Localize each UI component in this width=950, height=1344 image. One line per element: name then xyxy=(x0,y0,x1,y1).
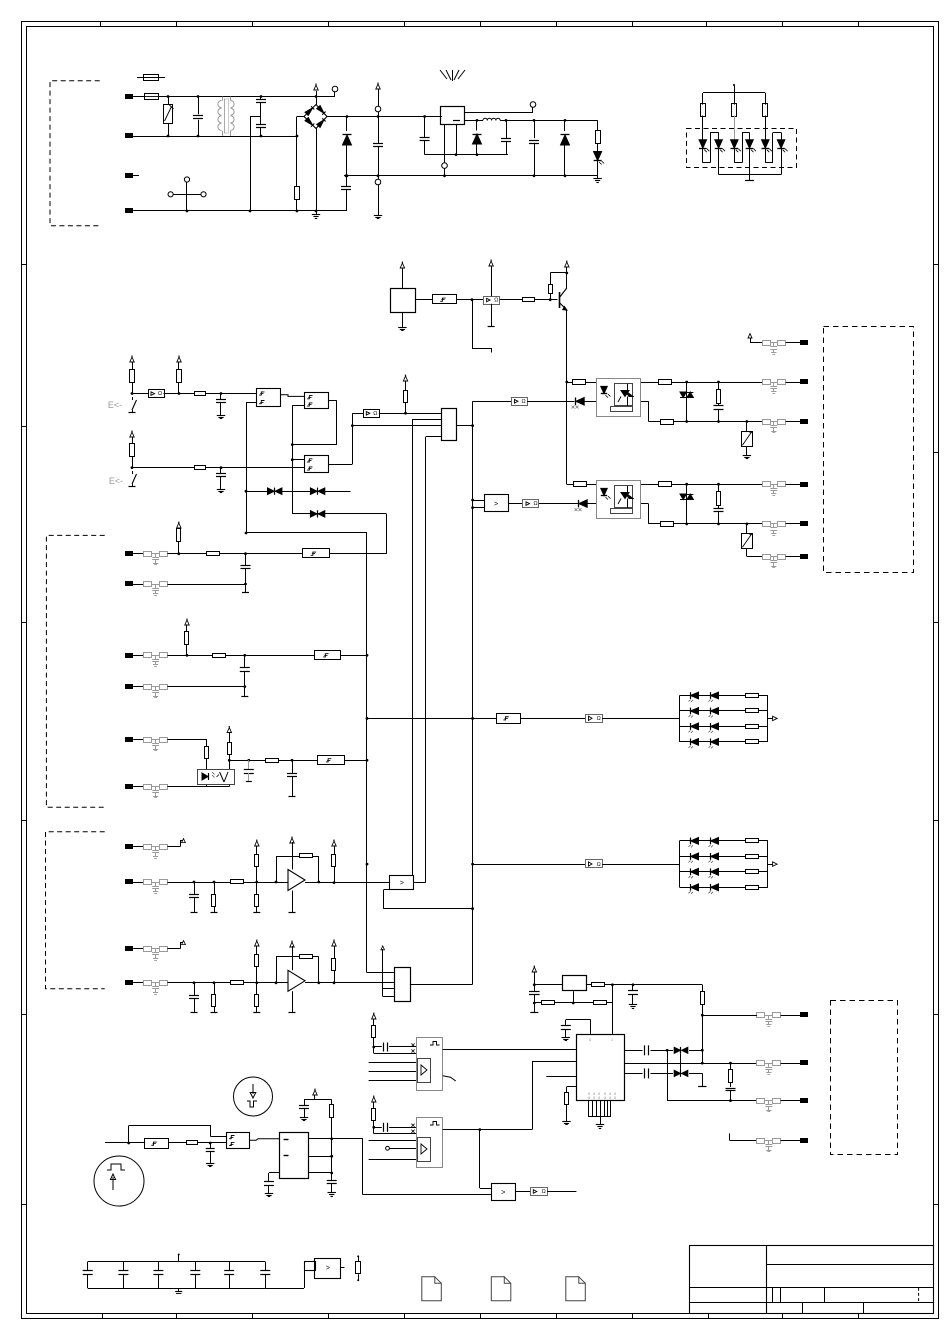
bead filter bottom row2 xyxy=(757,1061,765,1066)
bead filter row J xyxy=(144,981,152,986)
capacitor C46 xyxy=(730,1083,732,1088)
capacitor C53 xyxy=(210,1143,212,1149)
bead filter row B xyxy=(144,582,152,587)
bead filter row I xyxy=(144,947,152,952)
bead filter bottom row4 xyxy=(757,1139,765,1144)
rays decoration xyxy=(440,70,447,79)
schmitt filter UL1 xyxy=(497,714,521,724)
ground U2 xyxy=(402,312,404,324)
capacitor C41 xyxy=(632,985,634,991)
resistor RH5 feedback xyxy=(300,854,313,858)
wire bus top link xyxy=(246,532,367,534)
wire connector J3 pin4 xyxy=(383,996,395,998)
resistor R31 xyxy=(574,482,587,487)
wire timer1 hook xyxy=(443,1076,456,1081)
capacitor CJ xyxy=(194,983,196,995)
wire to gate1 xyxy=(206,393,256,395)
ground stub U4 xyxy=(491,304,493,327)
vcc arrow opamp2 pullup xyxy=(255,941,259,946)
svg-text:Ω: Ω xyxy=(534,501,538,507)
wire timer2 to comparator xyxy=(479,1130,481,1188)
wire gate3 out xyxy=(328,464,352,466)
terminal L2 xyxy=(126,134,133,138)
led D12 xyxy=(718,133,720,141)
terminal XB3 xyxy=(781,1100,801,1102)
crystal Y1 xyxy=(563,976,587,991)
wire U8 out xyxy=(527,401,574,403)
wire row2 to gate3 xyxy=(206,467,304,469)
resistor RJ6 pullup xyxy=(332,959,336,971)
wire row H to opamp xyxy=(244,882,289,884)
ground led xyxy=(597,176,599,179)
page icon 1 xyxy=(422,1277,442,1301)
wire led pair 3 links xyxy=(765,162,773,164)
terminal row H xyxy=(126,880,133,884)
resistor R52 xyxy=(372,1109,376,1121)
capacitor C52 series xyxy=(374,1127,382,1129)
triac TR2 xyxy=(686,484,688,524)
vcc arrow row E pullup xyxy=(227,728,231,733)
border zone tick marks right xyxy=(934,264,939,266)
capacitor C3 xyxy=(506,120,508,138)
terminal X21 xyxy=(786,342,801,344)
bridge rectifier BR1 xyxy=(297,116,304,118)
resistor R2 xyxy=(523,298,535,302)
ground mcu xyxy=(600,1117,602,1121)
wire row A xyxy=(167,553,206,555)
connector J2 xyxy=(442,409,457,441)
wire gate1 to gate2 xyxy=(280,395,304,397)
vertical pin4 from comparator xyxy=(425,437,427,883)
terminal PE stub xyxy=(126,174,133,178)
cap bank rails xyxy=(88,1261,266,1263)
resistor R5 xyxy=(177,370,182,383)
wire pulse line c xyxy=(197,1142,226,1144)
wire row F xyxy=(167,786,229,788)
resistor RH xyxy=(214,882,216,894)
terminal row C xyxy=(126,654,133,658)
inductor L1 xyxy=(464,120,483,122)
wire opto E out xyxy=(229,760,265,762)
svg-text:Ω: Ω xyxy=(494,298,498,304)
vcc arrow U4 xyxy=(489,261,493,266)
wire row A cont xyxy=(219,553,302,555)
optocoupler U21 xyxy=(597,379,641,417)
driver buffer U9B xyxy=(523,500,539,508)
gate U6C xyxy=(305,456,329,473)
wire U21B out xyxy=(547,1191,576,1193)
driver buffer U21B xyxy=(531,1188,548,1196)
vcc arrow reset xyxy=(304,1099,332,1101)
ground cap bank xyxy=(178,1288,180,1292)
wire row C cont xyxy=(226,655,315,657)
dashed box left connector 2 xyxy=(46,535,104,807)
wire led array 1 out xyxy=(768,718,773,720)
wire gate to reset ic xyxy=(249,1139,279,1141)
ground C53 xyxy=(210,1160,212,1163)
reset ic left bottom pin xyxy=(269,1172,280,1174)
wire row2 xyxy=(132,467,195,469)
capacitor CC xyxy=(244,655,246,667)
wire mcu left stub xyxy=(546,1076,576,1078)
vcc arrow bridge output xyxy=(316,91,318,97)
resistor RJ4 xyxy=(256,983,258,994)
timer block U16 xyxy=(417,1118,443,1168)
terminal row F xyxy=(126,785,133,789)
terminal row J xyxy=(126,981,133,985)
vcc arrow aux connector xyxy=(376,84,380,89)
resistor R33 xyxy=(661,522,674,527)
wire row E cont xyxy=(278,760,317,762)
bead filter bottom row1 xyxy=(757,1013,765,1018)
vcc arrow Q1 xyxy=(565,262,569,267)
resistor RE xyxy=(206,740,208,747)
led D16 xyxy=(781,133,783,141)
SMPS ground pins xyxy=(444,125,446,163)
diode pair row2 xyxy=(292,513,386,515)
switch S1 xyxy=(132,397,134,400)
ground mains xyxy=(316,211,318,214)
wire N rail xyxy=(133,210,346,212)
terminal X33 xyxy=(786,556,801,558)
terminal row D xyxy=(126,685,133,689)
border zone tick marks left xyxy=(22,264,27,266)
led array 1 xyxy=(679,696,681,742)
ground aux xyxy=(378,212,380,215)
dashed box output connector right xyxy=(824,327,914,573)
page icon 3 xyxy=(566,1277,586,1301)
transistor Q1 xyxy=(559,292,561,308)
resistor R3 pullup xyxy=(550,294,552,300)
resistor R22 xyxy=(659,380,672,385)
bead filter T23 xyxy=(763,420,771,425)
svg-text:Ω: Ω xyxy=(373,411,377,417)
timer block U15 xyxy=(417,1038,443,1091)
wire timer2 to mcu xyxy=(532,1062,534,1130)
vcc arrow timer2 xyxy=(372,1097,376,1102)
resistor RA xyxy=(177,529,181,542)
feedback loop opamp2 xyxy=(276,957,278,983)
resistor RE2 xyxy=(228,743,232,755)
wire varistor to row xyxy=(746,549,748,557)
capacitor C21 snubber xyxy=(718,403,720,406)
wire schmitt out xyxy=(457,299,484,301)
led D13 xyxy=(734,129,736,141)
schmitt filter UA xyxy=(303,549,330,558)
tvs diode D45 xyxy=(674,1070,680,1076)
resistor R1 led xyxy=(597,120,599,130)
resistor R7 xyxy=(130,444,135,457)
diode D21 xyxy=(576,398,584,406)
resistor R8 xyxy=(195,466,206,470)
optocoupler UE xyxy=(198,770,235,785)
long vertical bus K1 xyxy=(472,401,474,984)
wire comparator U12 lower xyxy=(383,890,385,909)
svg-text:8: 8 xyxy=(604,1096,606,1100)
connector J3 xyxy=(395,968,411,1002)
vcc stub led board xyxy=(733,84,735,86)
terminal XB1 xyxy=(781,1015,801,1017)
comparator U9 xyxy=(485,495,509,512)
wire opto1 out bottom xyxy=(641,401,648,403)
pulse icon down xyxy=(234,1077,273,1116)
dashed box mains input connector xyxy=(50,81,101,226)
terminal N xyxy=(126,209,133,213)
resistor RH3 xyxy=(255,855,259,867)
wire L2 to bridge AC2 xyxy=(296,117,298,187)
title block row line 2 xyxy=(690,1287,934,1289)
resistor RH4 xyxy=(256,882,258,894)
wire connector out xyxy=(456,425,472,427)
svg-text:>: > xyxy=(494,501,498,508)
resistor R43 xyxy=(542,1001,555,1005)
wire SMPS out top xyxy=(464,112,533,114)
wire timer2 out xyxy=(443,1129,532,1131)
resistor R34 snubber xyxy=(718,484,720,492)
wire row E out xyxy=(344,760,367,762)
feedback loop pulse xyxy=(128,1126,130,1143)
wire row G stub xyxy=(167,846,180,848)
bead filter row G xyxy=(144,845,152,850)
comparator U20 xyxy=(492,1184,516,1201)
capacitor CX1 xyxy=(198,97,200,115)
svg-text:>: > xyxy=(501,1189,505,1196)
wire Y-cap midpoint to N xyxy=(260,115,262,118)
wire led row 1c xyxy=(602,718,679,720)
resistor RJ5 feedback xyxy=(300,955,313,959)
svg-text:>: > xyxy=(400,880,404,887)
capacitor C4 xyxy=(534,120,536,138)
ground C6 xyxy=(220,412,222,415)
svg-text:Ω: Ω xyxy=(597,862,601,868)
wire U4 out xyxy=(500,299,523,301)
driver buffer U5 xyxy=(132,393,148,395)
bead filter T32 xyxy=(763,522,771,527)
wire to mcu top xyxy=(607,1002,613,1004)
mcu bottom pins xyxy=(588,1101,590,1117)
Y-capacitor CY1 xyxy=(260,97,262,100)
pulse icon up xyxy=(94,1156,144,1206)
wire SMPS secondary rail xyxy=(425,154,508,156)
capacitor CH xyxy=(194,882,196,894)
vcc arrow row1b xyxy=(177,357,181,362)
vcc arrow timer1 xyxy=(372,1014,376,1019)
opamp U11 power xyxy=(292,842,294,870)
title block row line 1 xyxy=(767,1264,934,1266)
reset ic U19 xyxy=(280,1133,309,1179)
driver buffer U8 xyxy=(512,398,528,406)
wire driver line1 xyxy=(473,401,512,403)
gate U6A xyxy=(257,389,281,407)
resistor RC xyxy=(185,632,189,645)
svg-text:Ω: Ω xyxy=(542,1189,546,1195)
resistor R51 xyxy=(372,1026,376,1038)
wire gate3 in1 xyxy=(292,459,304,461)
resistor RJ2 xyxy=(231,981,244,985)
timer1 pins xyxy=(374,1053,417,1055)
wire R2 to Q1 base xyxy=(535,299,558,301)
terminal X31 xyxy=(786,484,801,486)
svg-text:8: 8 xyxy=(593,1096,595,1100)
circle connector pin 1 xyxy=(375,106,381,112)
capacitor CE2 xyxy=(292,760,294,773)
resistor R32 xyxy=(659,482,672,487)
wire connector pin4 xyxy=(426,436,442,438)
resistor R11 xyxy=(702,93,704,105)
bead filter row D xyxy=(144,685,152,690)
dashed box bottom connector xyxy=(831,1001,898,1155)
bead filter row H xyxy=(144,880,152,885)
svg-text:E<-: E<- xyxy=(109,476,123,486)
resistor R45 pulldown xyxy=(567,1086,577,1088)
wire rowC end xyxy=(702,1073,704,1086)
resistor R13 xyxy=(765,93,767,105)
wire led pair 2 links xyxy=(734,162,742,164)
vcc stub cap bank xyxy=(178,1254,180,1256)
fuse F1 xyxy=(133,96,144,98)
svg-text:Ω: Ω xyxy=(597,716,601,722)
wire opto2 out top xyxy=(641,484,658,486)
wire crystal bottom mid xyxy=(555,1002,593,1004)
wire opto2 out bottom xyxy=(641,503,648,505)
terminal L1 xyxy=(126,95,133,99)
wire reset out 1 xyxy=(309,1138,363,1140)
wire mcu out rowA xyxy=(625,1050,643,1052)
resistor R55 standalone xyxy=(357,1255,359,1257)
terminal row A xyxy=(126,552,133,556)
wire connector J3 pin3 xyxy=(383,988,395,990)
capacitor input C2 xyxy=(424,117,426,138)
capacitor C42 vcc xyxy=(534,985,536,991)
title block vertical divider xyxy=(766,1246,768,1314)
wire connector pin2 xyxy=(412,419,441,421)
wire reset to comparator xyxy=(362,1139,364,1195)
wire comparator inputs xyxy=(473,500,484,502)
title block row line 3 xyxy=(690,1302,934,1304)
resistor R53 xyxy=(187,1141,198,1145)
vertical gate3 out xyxy=(352,413,354,464)
wire L2 rail xyxy=(133,136,297,138)
led D11 xyxy=(702,129,704,141)
capacitor C43 decouple xyxy=(566,1019,591,1021)
wire bridge minus down xyxy=(316,129,318,212)
varistor RV31 xyxy=(746,524,748,533)
capacitor C6 xyxy=(220,394,222,400)
capacitor C51 series xyxy=(374,1046,382,1048)
led D14 xyxy=(749,133,751,141)
resistor RH6 pullup xyxy=(332,855,336,867)
svg-text:8: 8 xyxy=(614,1096,616,1100)
vcc arrow row C pullup xyxy=(185,620,189,625)
wire pulse line xyxy=(105,1142,144,1144)
wire opto1 out top xyxy=(641,382,658,384)
wire opamp1 out xyxy=(305,882,390,884)
resistor RJ3 xyxy=(255,955,259,967)
SMPS converter U10 xyxy=(441,107,465,125)
opamp U13 xyxy=(288,970,305,991)
diode D31 xyxy=(579,500,587,508)
vcc arrow opamp1 pullup xyxy=(255,841,259,846)
ground led board xyxy=(749,175,751,181)
ground RV21 xyxy=(746,447,748,453)
wire tvs link xyxy=(680,1054,682,1070)
terminal X22 xyxy=(786,382,801,384)
bead filter row C xyxy=(144,653,152,658)
led array 2 xyxy=(679,841,681,887)
title block bottom row dividers xyxy=(802,1302,804,1314)
wire row E xyxy=(167,739,207,741)
wire led pair 1 links xyxy=(703,162,710,164)
page icon 2 xyxy=(491,1277,511,1301)
spare fuse F2 xyxy=(137,77,165,79)
bead filter row E xyxy=(144,738,152,743)
wire U9 out xyxy=(508,503,523,505)
wire buffer out to connector xyxy=(379,413,441,415)
wire gate1 in2 xyxy=(246,402,256,404)
terminal XB4 xyxy=(781,1140,801,1142)
svg-text:Ω: Ω xyxy=(158,391,162,397)
zener D1 xyxy=(346,117,348,132)
common-mode choke T0 xyxy=(222,97,224,101)
capacitor bank C61-C66 xyxy=(87,1262,89,1271)
capacitor CA xyxy=(245,554,247,566)
triac TR1 xyxy=(686,382,688,422)
bead filter bottom row3 xyxy=(757,1099,765,1104)
terminal row I xyxy=(126,947,133,951)
svg-text:>: > xyxy=(326,1265,330,1272)
vcc stub J3 xyxy=(382,949,384,996)
wire led row 2 xyxy=(473,864,586,866)
circle SMPS output xyxy=(532,107,534,112)
resistor R6 xyxy=(195,392,206,396)
selector switch S0 xyxy=(184,177,189,182)
capacitor C31 snubber xyxy=(718,506,720,509)
capacitor C45 series xyxy=(644,1068,646,1078)
capacitor C44 series xyxy=(644,1045,646,1055)
wire connector J3 out xyxy=(410,984,473,986)
resistor RE3 xyxy=(266,759,279,763)
wire bridge plus to rail xyxy=(316,97,318,105)
bead filter T31 xyxy=(763,482,771,487)
wire crystal top xyxy=(534,984,562,986)
ground C7 xyxy=(220,486,222,489)
wire led array 2 out xyxy=(768,864,773,866)
terminal row line out xyxy=(750,338,752,343)
wire U12 out up xyxy=(414,882,426,884)
vcc arrow row A pullup xyxy=(177,523,181,528)
vcc arrow crystal xyxy=(532,967,536,972)
vertical pin2 to comparator xyxy=(412,419,414,875)
svg-text:Ω: Ω xyxy=(522,399,526,405)
zener D3 xyxy=(564,120,566,131)
wire crystal out xyxy=(605,984,641,986)
border zone tick marks top xyxy=(100,22,102,27)
bead filter T21 xyxy=(763,341,771,346)
schmitt filter U17 xyxy=(145,1139,169,1149)
wire bottom row4 xyxy=(729,1133,731,1140)
svg-text:8: 8 xyxy=(588,1096,590,1100)
wire U20 out xyxy=(515,1191,530,1193)
wire led board top rail xyxy=(703,92,765,94)
wire led row 2c xyxy=(602,864,679,866)
wire cap bank to comparator xyxy=(265,1288,304,1290)
resistor RJ xyxy=(214,983,216,994)
resistor R4 xyxy=(130,370,135,383)
bead filter T22 xyxy=(763,380,771,385)
opamp U13 power xyxy=(292,946,294,970)
switch S2 xyxy=(132,471,134,474)
LED power indicator xyxy=(597,143,599,151)
